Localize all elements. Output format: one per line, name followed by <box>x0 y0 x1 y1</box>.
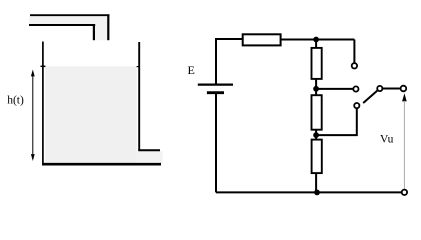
pipe outlet right edge <box>107 14 109 40</box>
pipe bottom wall <box>29 24 95 26</box>
wire pole to output terminal <box>382 88 400 90</box>
wire down to top tap terminal <box>353 40 355 64</box>
svg-text:E: E <box>188 63 195 77</box>
wire battery- down <box>215 93 217 193</box>
h(t) arrowhead up <box>31 70 35 77</box>
wire node B to tap terminal 1 <box>316 88 353 90</box>
tank right wall <box>138 42 140 151</box>
wire R3 to node C <box>315 130 317 136</box>
battery long plate <box>198 83 233 85</box>
svg-text:Vu: Vu <box>380 134 394 146</box>
resistor R4 (divider bottom, vertical) <box>312 140 322 174</box>
pipe interior fluid <box>29 16 109 40</box>
switch pole terminal <box>377 86 382 91</box>
resistor R3 (divider middle, vertical) <box>312 95 322 130</box>
Vu arrowhead <box>402 93 407 101</box>
h(t) arrowhead down <box>31 154 35 161</box>
surface tick right <box>137 66 140 68</box>
battery short plate <box>207 91 224 94</box>
terminal output + <box>401 86 407 92</box>
node D (bottom junction) <box>314 190 320 196</box>
tank liquid <box>45 66 137 163</box>
pipe outlet left edge <box>93 24 95 40</box>
terminal top tap <box>352 63 357 68</box>
pipe top wall <box>30 14 109 16</box>
resistor R1 (series, horizontal) <box>243 34 281 45</box>
wire R2 to node B <box>315 79 317 96</box>
wire battery+ to top <box>216 39 243 84</box>
bottom rail wire <box>216 191 402 193</box>
node A (top junction) <box>313 37 319 43</box>
wire node C to R4 <box>315 135 317 140</box>
tank bottom wall <box>42 163 161 166</box>
node C <box>313 132 319 138</box>
switch wiper arm <box>363 91 377 103</box>
tank left wall <box>42 42 44 164</box>
liquid surface tick <box>41 65 46 67</box>
wire node C to tap terminal 2 <box>316 109 357 136</box>
svg-text:h(t): h(t) <box>7 94 24 106</box>
resistor R2 (divider top, vertical) <box>312 48 322 79</box>
terminal tap 1 <box>353 86 358 91</box>
wire R4 to bottom rail <box>315 173 317 193</box>
tank outlet top wall <box>138 149 160 151</box>
node B <box>313 86 319 92</box>
Vu measurement line <box>403 101 405 190</box>
h(t) arrow shaft <box>32 73 34 156</box>
wire R1 to node A <box>281 39 355 41</box>
terminal output - <box>402 190 407 195</box>
terminal tap 2 <box>354 103 359 108</box>
outlet fluid <box>137 151 163 163</box>
wire node A to R2 <box>315 40 317 49</box>
